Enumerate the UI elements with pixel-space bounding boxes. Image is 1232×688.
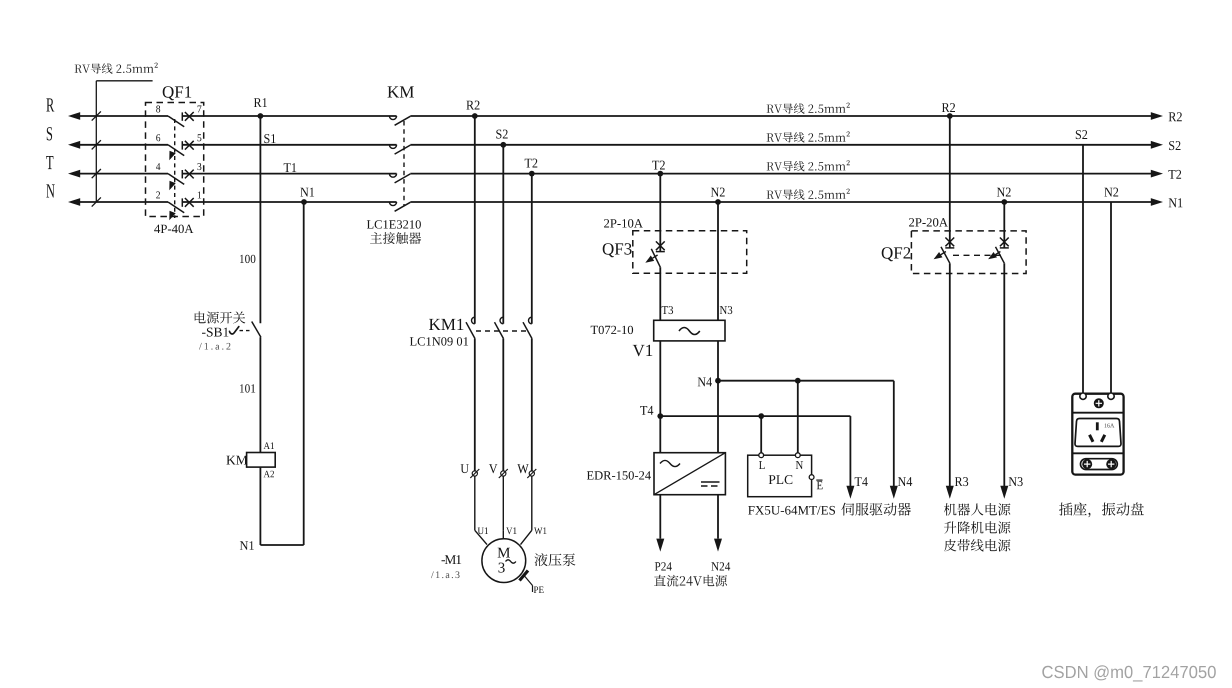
KM pole arc row R — [389, 116, 396, 120]
QF1 rating 4P-40A — [154, 225, 193, 234]
transformer type T072-10 — [591, 326, 633, 334]
wire N2 to socket — [1110, 202, 1112, 394]
bottom screws — [1082, 459, 1092, 469]
wire label N1 bottom — [240, 541, 254, 550]
QF3 label — [603, 243, 632, 257]
motor 3~ — [499, 563, 505, 573]
QF3 pole blade — [651, 249, 660, 267]
QF3 trip arrow — [645, 256, 654, 263]
bus N left arrow — [68, 198, 80, 206]
QF1 pole contact X row R — [185, 112, 194, 121]
wire label N3 — [720, 306, 733, 314]
QF1 pole contact X row S — [185, 141, 194, 150]
16A marking — [1105, 424, 1115, 428]
wire bus S right segment — [182, 144, 397, 146]
socket top screw — [1094, 398, 1104, 408]
EDR diagonal — [654, 453, 725, 495]
PLC pin N wire — [797, 381, 799, 453]
KM1 pole lower wire — [531, 339, 533, 471]
QF1 pole blade row S — [168, 145, 184, 156]
QF2 pole at 949.8: X contact — [945, 238, 954, 247]
wire below terminal V — [502, 476, 504, 530]
QF2 pole tick — [945, 247, 954, 249]
node N2 right — [1001, 199, 1007, 205]
QF2 trip arrow — [934, 252, 943, 259]
wire bus R right segment — [182, 115, 397, 117]
QF1 pole tick row T — [181, 170, 183, 178]
earth slot — [1096, 422, 1099, 430]
KM label — [388, 86, 414, 97]
node T4 — [657, 413, 663, 419]
QF1 pole tick row N — [181, 198, 183, 206]
label 插座，振动盘 — [1059, 503, 1144, 518]
QF3 dashed enclosure — [633, 231, 747, 274]
KM1 contact pole at 503.3 — [500, 317, 503, 324]
motor lead labels U1 V1 W1 — [478, 527, 488, 534]
PLC text — [769, 475, 793, 484]
transformer sine — [679, 328, 700, 335]
wire label T3 — [662, 306, 673, 314]
wire bus N right segment — [182, 201, 397, 203]
bus R left arrow — [68, 112, 80, 120]
socket divider top — [1072, 412, 1123, 414]
QF1 linkage dashed line — [174, 119, 176, 218]
crossing tick on N — [92, 197, 101, 206]
PLC type label — [748, 506, 835, 515]
node N2 drop — [715, 199, 721, 205]
label 直流24V电源 — [654, 575, 727, 587]
N4 feed arrow — [890, 486, 898, 499]
QF1 pole tick row S — [181, 141, 183, 149]
QF1 terminal number 8 — [156, 105, 160, 112]
node T2 drop — [657, 171, 663, 177]
QF3 pole: X contact — [656, 241, 665, 250]
N3 feed arrow — [1000, 486, 1008, 499]
PLC pin labels — [759, 461, 765, 469]
KM pole arc row S — [389, 145, 396, 149]
QF1 pole contact X row N — [185, 198, 194, 207]
KM pole blade row T — [395, 174, 411, 183]
terminal W — [517, 464, 528, 473]
wire N1 return up — [303, 202, 305, 545]
SB1 blade — [252, 322, 261, 338]
QF1 pole blade row T — [168, 174, 184, 185]
live slot — [1090, 435, 1094, 442]
QF2 pole at 1004.3: X contact — [1000, 238, 1009, 247]
QF3 pole lower wire — [659, 267, 661, 320]
motor label 液压泵 — [535, 553, 576, 566]
QF1 linkage arrow — [169, 151, 175, 160]
label RV导线 2.5mm² — [767, 160, 850, 171]
PLC pin N circle — [795, 453, 800, 458]
QF1 terminal number 2 — [156, 191, 160, 198]
T4 feed arrow — [846, 486, 854, 499]
wire bus R segment after KM — [410, 115, 1152, 117]
QF1 terminal number 1 — [198, 192, 201, 199]
socket bottom pill — [1081, 459, 1118, 470]
QF1 linkage arrow — [169, 181, 175, 190]
PLC pin L circle — [759, 453, 764, 458]
node N1 — [301, 199, 307, 205]
node R1 — [258, 113, 264, 119]
crossing tick on S — [92, 140, 101, 149]
labels 机器人电源 升降机电源 皮带线电源 — [944, 503, 1011, 515]
phase labels left R S T N — [46, 98, 54, 111]
node R2 right — [947, 113, 953, 119]
QF2 pole blade — [996, 247, 1005, 263]
motor M1 circle — [482, 539, 526, 583]
KM1 contact pole at 474.8 — [472, 317, 475, 324]
crossing tick on T — [92, 169, 101, 178]
SB1 sheet ref /1.a.2 — [199, 343, 230, 350]
wire bus S segment after KM — [410, 144, 1152, 146]
watermark CSDN — [1042, 665, 1216, 681]
wire bottom horizontal — [260, 544, 303, 546]
transformer ref V1 — [633, 345, 653, 357]
SB1 operator hook — [230, 327, 239, 334]
QF1 pole tick row R — [181, 112, 183, 120]
node T2 — [529, 171, 535, 177]
motor ref -M1 — [442, 555, 462, 564]
label RV导线 2.5mm² — [767, 189, 850, 200]
KM type label LC1E3210 — [367, 220, 421, 228]
crossing tick on R — [92, 111, 101, 120]
wire drop x=531.8 — [531, 174, 533, 324]
QF2 label — [882, 247, 911, 261]
bus N right arrow — [1151, 198, 1163, 206]
node on T4 rail for L — [758, 413, 764, 419]
wire number 101 — [240, 384, 255, 392]
QF2 pole lower wire — [1003, 263, 1005, 486]
transformer V1 box — [654, 320, 725, 341]
wire bus R left segment — [79, 115, 168, 117]
wire bus S left segment — [79, 144, 168, 146]
node N4 — [715, 378, 721, 384]
bus S right arrow — [1151, 141, 1163, 149]
PE leader — [525, 576, 533, 586]
QF2 dashed enclosure — [911, 231, 1026, 274]
QF1 terminal number 3 — [198, 163, 202, 170]
KM1 pole lower wire — [502, 339, 504, 471]
label RV导线 2.5mm² — [767, 131, 850, 142]
PLC pin E label with overbar — [817, 481, 823, 489]
KM linkage dashed line — [403, 121, 405, 206]
QF2 pole tick — [1000, 247, 1009, 249]
QF1 terminal number 6 — [156, 134, 160, 141]
SB1 reference — [202, 328, 228, 337]
label 伺服驱动器 servo drive — [841, 503, 911, 516]
socket terminal circles — [1080, 393, 1086, 399]
wire drop x=474.8 — [474, 116, 476, 324]
R3 feed arrow — [946, 486, 954, 499]
PE tick — [520, 571, 529, 581]
QF3 rating 2P-10A — [604, 219, 643, 228]
EDR AC sine — [660, 460, 680, 466]
KM pole blade row R — [395, 116, 411, 125]
wire label T1 — [284, 163, 297, 172]
KM pole arc row T — [389, 174, 396, 178]
wire drop x=503.3 — [502, 145, 504, 324]
motor sheet ref /1.a.3 — [431, 571, 460, 578]
wire label S1 — [264, 134, 275, 143]
wire bus N left segment — [79, 201, 168, 203]
wire S2 to socket — [1082, 145, 1084, 394]
wire bus T segment after KM — [410, 173, 1152, 175]
node R2 — [472, 113, 478, 119]
wire coil down — [259, 467, 261, 545]
QF1 pole contact X row T — [185, 170, 194, 179]
QF2 rating 2P-20A — [909, 218, 948, 227]
KM1 type LC1N09 01 — [410, 337, 468, 345]
bus T left arrow — [68, 170, 80, 178]
wire below terminal W — [531, 476, 533, 530]
EDR DC bars — [701, 481, 720, 483]
socket divider bottom — [1072, 452, 1123, 454]
bus T right arrow — [1151, 170, 1163, 178]
node on N4 rail for N — [795, 378, 801, 384]
bus S left arrow — [68, 141, 80, 149]
PLC pin L wire — [760, 416, 762, 453]
motor lead bends — [475, 530, 487, 544]
wire N2 down through QF3 to transformer — [717, 202, 719, 320]
transformer secondary wires — [659, 341, 661, 453]
wire switch to coil — [259, 337, 261, 452]
KM1 linkage dashes — [476, 330, 530, 332]
terminal U — [461, 464, 469, 473]
T4 rail wire — [660, 415, 850, 417]
motor M — [498, 548, 510, 558]
wire bus T left segment — [79, 173, 168, 175]
QF1 linkage arrow — [169, 211, 175, 220]
wire label S2 — [1076, 130, 1087, 139]
EDR output wires — [659, 495, 661, 539]
QF1 dashed enclosure — [146, 103, 204, 217]
KM1 label — [429, 319, 463, 330]
KM1 contact pole at 531.8 — [529, 317, 532, 324]
wire below terminal U — [474, 476, 476, 530]
label RV导线 2.5mm² — [767, 103, 850, 114]
contactor coil KM — [247, 453, 276, 468]
QF1 label — [163, 86, 192, 100]
N4 rail wire — [718, 380, 894, 382]
KM pole arc row N — [389, 202, 396, 206]
wire R1 down to switch — [259, 116, 261, 323]
QF2 linkage dashes — [953, 254, 1001, 256]
QF2 feed wires — [949, 116, 951, 248]
QF1 terminal number 5 — [198, 134, 202, 141]
QF2 pole blade — [941, 247, 950, 263]
neutral slot — [1101, 435, 1105, 442]
KM pole blade row S — [395, 145, 411, 154]
KM pole blade row N — [395, 202, 411, 211]
wire bus T right segment — [182, 173, 397, 175]
callout bracket line — [96, 80, 152, 82]
socket face plate — [1075, 419, 1121, 447]
coil terminal A2 — [264, 471, 274, 478]
terminal V — [489, 464, 498, 473]
QF1 pole blade row R — [168, 116, 184, 127]
QF2 trip arrow — [988, 252, 997, 259]
PE label — [534, 587, 544, 594]
QF1 pole blade row N — [168, 202, 184, 213]
PLC pin E circle — [809, 475, 814, 480]
N24 arrow — [714, 539, 722, 552]
wire T2 down to QF3 — [659, 174, 661, 252]
KM label 主接触器 — [370, 232, 421, 244]
KM1 pole lower wire — [474, 339, 476, 471]
SB1 operator dashes — [240, 330, 251, 332]
wire label N2 — [1104, 188, 1118, 197]
QF1 terminal number 7 — [198, 106, 202, 113]
wire bus N segment after KM — [410, 201, 1152, 203]
coil terminal A1 — [264, 442, 274, 449]
bus labels right R2 S2 T2 N1 — [1169, 112, 1182, 121]
EDR type label — [587, 471, 651, 479]
QF3 pole tick — [656, 251, 665, 253]
socket body — [1072, 394, 1123, 475]
wire number 100 — [240, 255, 255, 263]
SB1 label 电源开关 — [195, 311, 246, 323]
wire spec callout RV导线 2.5mm² top-left — [75, 63, 158, 74]
bus R right arrow — [1151, 112, 1163, 120]
P24 arrow — [656, 539, 664, 552]
node S2 — [500, 142, 506, 148]
QF1 terminal number 4 — [156, 163, 160, 170]
QF2 pole lower wire — [949, 263, 951, 486]
